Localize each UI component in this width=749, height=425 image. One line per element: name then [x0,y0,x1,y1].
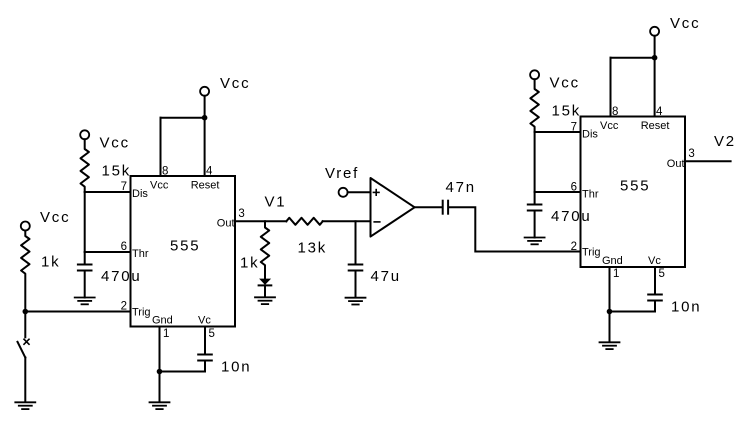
resistor 1k R4 (V1 node) [261,221,269,278]
node junction gnd U3 [607,309,613,315]
svg-text:1k: 1k [240,255,259,272]
svg-text:Vcc: Vcc [150,179,169,191]
svg-text:Reset: Reset [641,120,670,132]
svg-text:Thr: Thr [582,189,599,201]
wire pin4 U1 [204,118,206,176]
wire 15k to thr2 [534,132,536,192]
wire pin8 U3 [610,58,612,117]
svg-text:Trig: Trig [582,247,601,259]
ground (under diode D1) [255,297,275,304]
svg-text:555: 555 [170,238,200,255]
svg-text:Vc: Vc [198,315,211,327]
svg-text:2: 2 [571,241,577,253]
svg-text:5: 5 [209,328,215,340]
power terminal Vcc (above 555 U3) [650,27,659,36]
svg-text:Vcc: Vcc [100,135,130,152]
wire gnd stem U3 [609,312,611,343]
svg-text:7: 7 [121,181,127,193]
svg-text:47n: 47n [446,179,476,196]
wire pin8 U1 [160,118,162,176]
capacitor 47u C3 [349,221,363,297]
wire out1 net right to opamp [323,220,371,222]
wire 10n to gnd junction U3 [610,311,656,313]
svg-text:Vcc: Vcc [600,120,619,132]
wire 47n to trig2 [449,207,581,251]
svg-text:Vcc: Vcc [40,209,70,226]
node junction gnd U1 [157,369,163,375]
svg-text:10n: 10n [221,359,251,376]
power terminal Vcc (above 555 U1) [200,87,209,96]
svg-text:V2: V2 [714,133,736,150]
wire 10n to gnd junction U1 [160,371,206,373]
svg-text:Vref: Vref [325,165,359,182]
svg-text:Vcc: Vcc [550,75,580,92]
wire opamp out [415,206,442,208]
svg-text:Out: Out [217,218,235,230]
svg-text:1k: 1k [41,254,60,271]
ground (under 470u C1) [75,298,95,305]
ground (under switch) [15,402,35,409]
svg-text:8: 8 [162,166,168,178]
wire pin1 U1 [159,327,161,372]
wire out2 V2 [685,160,731,162]
svg-text:Gnd: Gnd [602,255,623,267]
wire out1 net left [235,220,286,222]
svg-text:Reset: Reset [191,179,220,191]
capacitor 470u C1 [78,252,92,298]
op-amp plus sign [373,190,379,196]
op-amp U2 [371,178,415,237]
power terminal Vcc (above 15k R1) [80,130,89,139]
svg-text:15k: 15k [102,163,132,180]
capacitor 47n C4 [443,201,448,214]
wire dis2 [535,131,581,133]
svg-text:47u: 47u [371,268,401,285]
svg-text:1: 1 [613,268,619,280]
svg-text:13k: 13k [298,240,328,257]
wire vcc to junction U3 [654,36,656,58]
capacitor 470u C5 [528,192,542,238]
wire to pin8 U1 [161,117,205,119]
wire 15k to thr1 [84,192,86,252]
svg-text:10n: 10n [671,299,701,316]
svg-text:1: 1 [163,328,169,340]
wire vcc to junction U1 [204,96,206,118]
svg-text:Thr: Thr [132,248,149,260]
wire thr2 [535,191,581,193]
resistor 15k R5 [530,79,538,132]
capacitor 10n C6 [648,295,662,312]
ground (under 555 U3) [600,342,620,349]
svg-text:Trig: Trig [132,307,151,319]
resistor 13k R3 [286,218,322,225]
svg-text:3: 3 [238,208,244,220]
wire pin1 U3 [609,267,611,312]
svg-text:2: 2 [121,301,127,313]
ground (under 555 U1) [150,402,170,409]
svg-text:15k: 15k [552,103,582,120]
svg-text:Dis: Dis [582,129,598,141]
diode D1 [259,279,272,297]
wire pin5 U3 [654,267,656,294]
switch S1 [18,312,30,403]
wire pin5 U1 [204,327,206,355]
svg-text:8: 8 [612,106,618,118]
wire thr1 [85,251,131,253]
op-amp minus sign [374,221,380,223]
IC 555 U3 box [581,117,686,268]
svg-text:6: 6 [571,182,577,194]
resistor 1k (far left) [21,231,29,312]
svg-text:4: 4 [206,166,213,178]
svg-text:Vc: Vc [648,255,661,267]
capacitor 10n C2 [198,355,212,372]
svg-text:470u: 470u [101,268,142,285]
resistor 15k R1 [81,139,89,192]
svg-text:V1: V1 [265,194,287,211]
svg-text:6: 6 [121,241,127,253]
svg-text:Vcc: Vcc [670,15,700,32]
power terminal Vcc (above 15k R5) [530,70,539,79]
power terminal Vref [339,188,348,197]
ground (under 470u C5) [525,238,545,245]
wire pin4 U3 [654,58,656,117]
svg-text:Vcc: Vcc [220,75,250,92]
wire trig1 net [25,311,130,313]
node junction left trig [23,309,29,315]
IC 555 U1 box [131,176,236,327]
power terminal Vcc (far left) [21,222,30,231]
svg-text:7: 7 [571,122,577,134]
wire to pin8 U3 [611,57,655,59]
ground (under 47u C3) [346,298,366,305]
svg-text:470u: 470u [551,208,592,225]
svg-text:555: 555 [620,178,650,195]
svg-text:3: 3 [688,148,694,160]
node junction vcc U3 [652,55,658,61]
node junction vcc U1 [202,115,208,121]
wire vref to opamp plus [348,191,371,193]
wire dis1 [85,191,131,193]
svg-text:Dis: Dis [132,188,148,200]
svg-text:Out: Out [667,158,685,170]
svg-text:4: 4 [656,106,663,118]
svg-text:5: 5 [659,268,665,280]
svg-text:Gnd: Gnd [152,315,173,327]
wire gnd stem U1 [159,372,161,403]
